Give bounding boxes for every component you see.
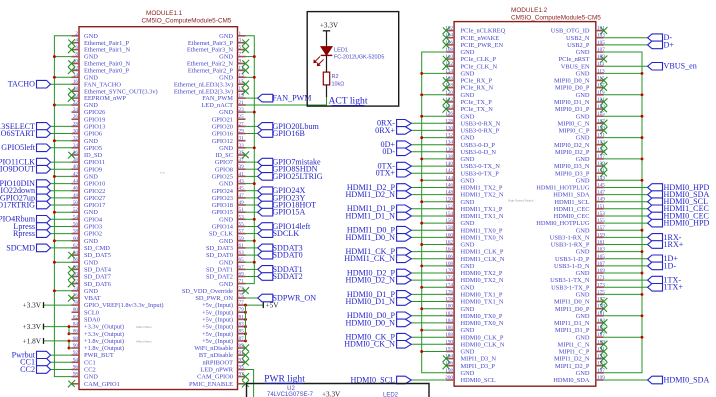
pin 76 VBAT (MODULE1.1 left)	[68, 293, 101, 302]
svg-text:107: 107	[597, 47, 605, 53]
svg-text:MIPI1_D3_N: MIPI1_D3_N	[461, 356, 497, 363]
svg-text:84: 84	[73, 322, 79, 328]
svg-text:MIPI0_D2_P: MIPI0_D2_P	[555, 149, 590, 156]
svg-text:0RX+: 0RX+	[375, 126, 395, 135]
svg-text:+3.3V: +3.3V	[322, 390, 341, 397]
pin 138 GND (MODULE1.2 left)	[420, 154, 474, 163]
pin 13 GND (MODULE1.1 right)	[219, 72, 256, 81]
svg-text:MIPI0_D0_N: MIPI0_D0_N	[554, 78, 590, 85]
pin 105 USB2_P (MODULE1.2 right)	[567, 40, 674, 49]
pin 30 GPIO6 (MODULE1.1 left)	[0, 129, 102, 138]
svg-text:GPIO9: GPIO9	[84, 166, 102, 173]
svg-text:34: 34	[73, 143, 79, 149]
svg-text:HDMI0_TX2_N: HDMI0_TX2_N	[461, 277, 504, 284]
pin 86 +3.3v_(Output) (MODULE1.1 left)	[72, 329, 125, 338]
svg-text:71: 71	[239, 279, 245, 285]
svg-text:39: 39	[239, 164, 245, 170]
svg-text:GND: GND	[461, 177, 475, 184]
pin 118 PCIe_RX_N (MODULE1.2 left)	[443, 83, 494, 92]
pin 35 ID_SC (MODULE1.1 right)	[215, 150, 249, 159]
svg-text:GND: GND	[576, 113, 590, 120]
svg-text:HDMI1_CEC: HDMI1_CEC	[554, 206, 590, 213]
svg-text:MIPI1_D3_P: MIPI1_D3_P	[461, 363, 496, 370]
svg-text:WiFi_nDisable: WiFi_nDisable	[194, 345, 233, 352]
svg-text:SD_DAT0: SD_DAT0	[206, 252, 233, 259]
svg-text:HDMI0_CLK_P: HDMI0_CLK_P	[461, 334, 504, 341]
svg-text:GND: GND	[576, 92, 590, 99]
svg-text:61: 61	[239, 243, 245, 249]
svg-text:GPIO24: GPIO24	[212, 188, 234, 195]
pin 40 GPIO9 (MODULE1.1 left)	[0, 164, 102, 174]
svg-text:SD_DAT6: SD_DAT6	[84, 281, 111, 288]
svg-text:GND: GND	[84, 174, 98, 181]
svg-text:GPIO17: GPIO17	[84, 202, 106, 209]
svg-text:USB3-0-RX_N: USB3-0-RX_N	[461, 120, 501, 127]
pin 168 GND (MODULE1.2 left)	[420, 261, 474, 270]
pin 188 HDMI0_CLK_P (MODULE1.2 left)	[346, 332, 504, 341]
svg-text:MIPI0_D1_P: MIPI0_D1_P	[555, 106, 590, 113]
svg-text:HDMI0_CLK_N: HDMI0_CLK_N	[461, 341, 505, 348]
svg-text:156: 156	[445, 218, 453, 224]
svg-text:0D-: 0D-	[382, 147, 395, 156]
svg-text:Ethernet_Pair3_N: Ethernet_Pair3_N	[187, 47, 234, 54]
svg-text:+5v_(Input): +5v_(Input)	[202, 309, 233, 316]
wire +1.8v output pair link	[68, 339, 72, 349]
pin 81 +5v_(Input) (MODULE1.1 right)	[202, 314, 247, 323]
pin 190 HDMI0_CLK_N (MODULE1.2 left)	[344, 339, 505, 348]
pin 139 MIPI0_D3_N (MODULE1.2 right)	[554, 161, 607, 170]
svg-text:USB3-1-RX_N: USB3-1-RX_N	[550, 235, 590, 242]
pin 29 GPIO16 (MODULE1.1 right)	[212, 129, 305, 138]
pin 187 GND (MODULE1.2 right)	[576, 332, 644, 341]
svg-text:MIPI0_D1_N: MIPI0_D1_N	[554, 99, 590, 106]
svg-text:HDMI1_SCL: HDMI1_SCL	[554, 199, 589, 206]
pin 54 GPIO4 (MODULE1.1 left)	[0, 214, 103, 223]
svg-text:13: 13	[239, 72, 245, 78]
svg-text:SDCMD: SDCMD	[6, 243, 35, 252]
pin 66 GND (MODULE1.1 left)	[53, 257, 98, 266]
svg-text:142: 142	[445, 168, 453, 174]
svg-text:GPIO13: GPIO13	[84, 124, 105, 131]
svg-text:108: 108	[445, 47, 453, 53]
svg-text:+5V: +5V	[266, 301, 280, 310]
svg-text:1: 1	[239, 31, 242, 37]
svg-text:USB3-1-TX_P: USB3-1-TX_P	[551, 284, 590, 291]
svg-text:96: 96	[73, 365, 79, 371]
pin 199 HDMI0_SDA (MODULE1.2 right)	[553, 375, 709, 384]
svg-text:92: 92	[73, 350, 79, 356]
pin 55 GPIO14 (MODULE1.1 right)	[212, 222, 311, 231]
svg-text:SD_CMD: SD_CMD	[84, 245, 110, 252]
pin 94 CC1 (MODULE1.1 left)	[20, 357, 96, 366]
svg-text:130: 130	[445, 125, 453, 131]
svg-text:GND: GND	[576, 227, 590, 234]
svg-text:GND: GND	[84, 288, 98, 295]
svg-text:MIPI0_D3_N: MIPI0_D3_N	[554, 163, 590, 170]
pin 134 USB3-0-D_P (MODULE1.2 left)	[381, 140, 496, 149]
svg-text:GPIO17RTRIG: GPIO17RTRIG	[0, 200, 35, 209]
svg-text:43: 43	[239, 179, 245, 185]
pin 88 +1.8v_(Output) (MODULE1.1 left)	[22, 336, 124, 346]
pin 111 VBUS_EN (MODULE1.2 right)	[561, 61, 697, 71]
svg-text:GND: GND	[461, 306, 475, 313]
svg-text:GND: GND	[461, 327, 475, 334]
pin 176 HDMI0_TX1_P (MODULE1.2 left)	[347, 289, 503, 298]
svg-text:197: 197	[597, 368, 605, 374]
svg-text:180: 180	[445, 304, 453, 310]
svg-text:MIPI1_D1_N: MIPI1_D1_N	[554, 320, 590, 327]
svg-text:162: 162	[445, 240, 453, 246]
pin 195 MIPI1_D2_P (MODULE1.2 right)	[555, 361, 607, 370]
svg-text:LED_nACT: LED_nACT	[201, 102, 233, 109]
svg-text:88: 88	[73, 336, 79, 342]
svg-text:GPIO16B: GPIO16B	[273, 129, 305, 138]
pin 197 GND (MODULE1.2 right)	[576, 368, 606, 377]
svg-text:GND: GND	[461, 284, 475, 291]
svg-text:GPIO8: GPIO8	[215, 166, 233, 173]
svg-text:166: 166	[445, 254, 453, 260]
pin 196 MIPI1_D3_P (MODULE1.2 left)	[443, 361, 496, 370]
svg-text:GPIO20: GPIO20	[212, 124, 233, 131]
svg-text:2: 2	[75, 31, 78, 37]
svg-text:GND: GND	[461, 156, 475, 163]
wire LED cathode to R2	[326, 55, 328, 72]
pin 189 MIPI1_C_N (MODULE1.2 right)	[558, 339, 608, 348]
svg-text:GND: GND	[219, 181, 233, 188]
svg-text:+5v_(Input): +5v_(Input)	[202, 317, 233, 324]
pin 4 Ethernet_Pair1_P (MODULE1.1 left)	[68, 38, 130, 47]
pin 143 GND (MODULE1.2 right)	[576, 175, 644, 184]
pin 120 GND (MODULE1.2 left)	[420, 90, 474, 99]
pin 64 SD_DAT5 (MODULE1.1 left)	[68, 250, 111, 259]
svg-text:69: 69	[239, 272, 245, 278]
pin 126 GND (MODULE1.2 left)	[420, 111, 474, 120]
connector MODULE1.2 CM5IO_ComputeModule5-CM5 body	[454, 7, 601, 386]
svg-text:25: 25	[239, 114, 245, 120]
svg-text:56: 56	[73, 222, 79, 228]
pin 98 GND (MODULE1.1 left)	[72, 372, 99, 381]
pin 14 GND (MODULE1.1 left)	[53, 72, 98, 81]
svg-text:SD_DAT2: SD_DAT2	[206, 274, 233, 281]
pin 85 +5v_(Input) (MODULE1.1 right)	[202, 329, 247, 338]
svg-text:ID_SD: ID_SD	[84, 152, 102, 159]
svg-text:GND: GND	[461, 71, 475, 78]
pin 152 HDMI1_TX1_P (MODULE1.2 left)	[347, 204, 503, 213]
svg-text:MIPI1_C_N: MIPI1_C_N	[558, 341, 590, 348]
svg-text:HDMI1_TX2_N: HDMI1_TX2_N	[461, 192, 504, 199]
pin 107 GND (MODULE1.2 right)	[576, 47, 606, 56]
svg-text:SD_DAT7: SD_DAT7	[84, 274, 112, 281]
svg-text:GPIO7: GPIO7	[215, 159, 234, 166]
pin 53 GND (MODULE1.1 right)	[219, 214, 256, 223]
svg-text:32: 32	[73, 136, 79, 142]
svg-text:GPIO12: GPIO12	[212, 138, 233, 145]
svg-text:GPIO25: GPIO25	[212, 174, 233, 181]
pin 194 MIPI1_D3_N (MODULE1.2 left)	[443, 354, 497, 363]
svg-text:132: 132	[445, 133, 453, 139]
svg-text:168: 168	[445, 261, 453, 267]
pin 83 +5v_(Input) (MODULE1.1 right)	[202, 322, 247, 331]
svg-text:USB3-0-D_N: USB3-0-D_N	[461, 149, 497, 156]
svg-text:+5v_(Input): +5v_(Input)	[202, 331, 233, 338]
wire +5v input bus	[245, 305, 247, 341]
svg-text:HDMI1_TX0_N: HDMI1_TX0_N	[461, 235, 504, 242]
svg-text:85: 85	[239, 329, 245, 335]
svg-text:128: 128	[445, 118, 453, 124]
pin 137 GND (MODULE1.2 right)	[576, 154, 644, 163]
svg-text:MIPI1_C_P: MIPI1_C_P	[559, 349, 590, 356]
svg-text:62: 62	[73, 243, 79, 249]
pin 1 GND (MODULE1.1 right)	[219, 31, 245, 40]
wire GND bus right of MODULE1.2	[604, 52, 642, 373]
svg-text:114: 114	[445, 68, 453, 74]
svg-text:GND: GND	[576, 49, 590, 56]
svg-text:152: 152	[445, 204, 453, 210]
pin 91 BT_nDisable (MODULE1.1 right)	[199, 350, 249, 359]
pin 61 SD_DAT3 (MODULE1.1 right)	[206, 243, 303, 252]
svg-text:87: 87	[239, 336, 245, 342]
svg-text:HDMI1_TX1_P: HDMI1_TX1_P	[461, 206, 503, 213]
pin 192 GND (MODULE1.2 left)	[420, 347, 474, 356]
svg-text:119: 119	[597, 90, 605, 96]
svg-text:HDMI0_CK_N: HDMI0_CK_N	[344, 340, 395, 349]
svg-text:GPIO14: GPIO14	[212, 224, 234, 231]
svg-text:MIPI1_D0_P: MIPI1_D0_P	[555, 306, 590, 313]
svg-text:HDMI0_D2_N: HDMI0_D2_N	[346, 276, 396, 285]
svg-text:44: 44	[73, 179, 79, 185]
pin 34 GPIO5 (MODULE1.1 left)	[1, 143, 102, 152]
svg-text:+3.3V: +3.3V	[22, 322, 41, 331]
connector MODULE1.1 CM5IO_ComputeModule5-CM5 body	[79, 10, 238, 389]
pin 181 GND (MODULE1.2 right)	[576, 311, 644, 320]
pin 33 GND (MODULE1.1 right)	[219, 143, 256, 152]
svg-text:MIPI1_D1_P: MIPI1_D1_P	[555, 327, 590, 334]
pin 167 USB3-1-D_N (MODULE1.2 right)	[554, 261, 676, 270]
pin 22 GND (MODULE1.1 left)	[53, 100, 98, 109]
svg-text:USB_OTG_ID: USB_OTG_ID	[551, 28, 590, 35]
svg-text:ACT light: ACT light	[328, 96, 367, 107]
pin 90 +1.8v_(Output) (MODULE1.1 left)	[72, 343, 125, 352]
svg-text:CC1: CC1	[84, 359, 96, 366]
pin 182 HDMI0_TX0_P (MODULE1.2 left)	[347, 311, 503, 320]
svg-text:HDMI1_D0_N: HDMI1_D0_N	[346, 233, 396, 242]
svg-text:nRPIBOOT: nRPIBOOT	[202, 359, 233, 366]
pin 20 EEPROM_nWP (MODULE1.1 left)	[68, 93, 126, 102]
svg-text:HDMI0_TX1_N: HDMI0_TX1_N	[461, 299, 504, 306]
pin 56 GPIO3 (MODULE1.1 left)	[13, 222, 102, 231]
pin 59 GND (MODULE1.1 right)	[219, 236, 256, 245]
svg-text:+5v_(Input): +5v_(Input)	[202, 338, 233, 345]
pin 2 GND (MODULE1.1 left)	[72, 31, 99, 40]
svg-text:27: 27	[239, 121, 245, 127]
svg-text:98: 98	[73, 372, 79, 378]
pin 185 MIPI1_D1_P (MODULE1.2 right)	[555, 325, 607, 334]
svg-text:HDMI1_CK_N: HDMI1_CK_N	[344, 254, 395, 263]
pin 19 FAN_PWM (MODULE1.1 right)	[202, 93, 311, 102]
pin 142 USB3-0-TX_P (MODULE1.2 left)	[376, 168, 500, 177]
svg-text:Affect filters: Affect filters	[136, 325, 152, 329]
pin 74 GND (MODULE1.1 left)	[53, 286, 98, 295]
svg-text:33: 33	[239, 143, 245, 149]
svg-text:HDMI1_CLK_N: HDMI1_CLK_N	[461, 256, 505, 263]
svg-text:GPIO5left: GPIO5left	[1, 143, 35, 152]
pin 62 SD_CMD (MODULE1.1 left)	[6, 243, 110, 252]
svg-text:TACHO: TACHO	[8, 80, 35, 89]
pin 73 SD_VDD_Override (MODULE1.1 right)	[182, 286, 249, 295]
pin 101 USB_OTG_ID (MODULE1.2 right)	[551, 26, 608, 35]
pin 17 Ethernet_nLED2(3.3v) (MODULE1.1 right)	[174, 86, 249, 95]
svg-text:GPIO9DOUT: GPIO9DOUT	[0, 165, 35, 174]
svg-text:86: 86	[73, 329, 79, 335]
pin 165 USB3-1-D_P (MODULE1.2 right)	[555, 254, 678, 263]
svg-text:MIPI0_D0_P: MIPI0_D0_P	[555, 85, 590, 92]
svg-text:1D-: 1D-	[664, 261, 677, 270]
pin 113 GND (MODULE1.2 right)	[576, 68, 644, 77]
svg-text:SD_PWR_ON: SD_PWR_ON	[195, 295, 233, 302]
svg-text:HDMI0_HPD: HDMI0_HPD	[664, 219, 710, 228]
svg-text:PCIe_nRST: PCIe_nRST	[559, 56, 590, 63]
pin 180 GND (MODULE1.2 left)	[420, 304, 474, 313]
svg-text:+3.3V: +3.3V	[22, 301, 41, 310]
pin 78 GPIO_VREF(1.8v/3.3v_Input) (MODULE1.1 left)	[22, 300, 163, 310]
svg-text:51: 51	[239, 207, 245, 213]
svg-text:HDMI1_HOTPLUG: HDMI1_HOTPLUG	[536, 185, 590, 192]
svg-text:CAM_GPIO0: CAM_GPIO0	[197, 374, 233, 381]
pin 42 GND (MODULE1.1 left)	[53, 171, 98, 180]
pin 116 PCIe_RX_P (MODULE1.2 left)	[443, 76, 493, 85]
svg-text:ID_SC: ID_SC	[215, 152, 233, 159]
pin 32 GND (MODULE1.1 left)	[53, 136, 98, 145]
svg-text:MIPI0_D3_P: MIPI0_D3_P	[555, 170, 590, 177]
pin 163 GND (MODULE1.2 right)	[576, 247, 644, 256]
resistor R2 10k	[323, 72, 344, 87]
svg-text:21: 21	[239, 100, 245, 106]
svg-text:67: 67	[239, 264, 245, 270]
pin 45 GPIO24 (MODULE1.1 right)	[212, 186, 306, 195]
svg-text:GPIO22: GPIO22	[84, 188, 105, 195]
pin 146 HDMI1_TX2_P (MODULE1.2 left)	[347, 183, 503, 192]
svg-text:HDMI0_TX2_P: HDMI0_TX2_P	[461, 270, 503, 277]
pin 51 GPIO15 (MODULE1.1 right)	[212, 207, 306, 216]
svg-text:GND: GND	[461, 263, 475, 270]
svg-text:19: 19	[239, 93, 245, 99]
pin 123 MIPI0_D1_P (MODULE1.2 right)	[555, 104, 607, 113]
svg-text:GND: GND	[576, 156, 590, 163]
pin 169 GND (MODULE1.2 right)	[576, 268, 644, 277]
svg-text:14: 14	[73, 72, 79, 78]
svg-text:50: 50	[73, 200, 79, 206]
node PWR light block frame	[247, 384, 430, 397]
pin 68 SD_DAT4 (MODULE1.1 left)	[68, 264, 112, 273]
pin 200 HDMI0_SCL (MODULE1.2 left)	[350, 375, 495, 384]
svg-text:38: 38	[73, 157, 79, 163]
pin 96 CC2 (MODULE1.1 left)	[20, 365, 96, 374]
svg-text:GND: GND	[219, 238, 233, 245]
pin 106 PCIE_PWR_EN (MODULE1.2 left)	[443, 40, 504, 49]
pin 130 USB3-0-RX_P (MODULE1.2 left)	[375, 125, 500, 134]
svg-text:49: 49	[239, 200, 245, 206]
svg-text:SD_VDD_Override: SD_VDD_Override	[182, 288, 233, 295]
svg-text:+3.3v_(Output): +3.3v_(Output)	[84, 324, 124, 331]
pin 104 PCIE_nWAKE (MODULE1.2 left)	[443, 33, 500, 42]
pin 70 SD_DAT7 (MODULE1.1 left)	[68, 272, 112, 281]
svg-text:54: 54	[73, 214, 79, 220]
svg-text:VBUS_EN: VBUS_EN	[561, 63, 590, 70]
wire GND bus left of MODULE1.1	[54, 36, 71, 377]
pin 48 GPIO27 (MODULE1.1 left)	[0, 193, 106, 202]
pin 186 GND (MODULE1.2 left)	[420, 325, 474, 334]
pin 10 Ethernet_Pair0_N (MODULE1.1 left)	[68, 59, 131, 68]
svg-text:GND: GND	[84, 238, 98, 245]
svg-text:48: 48	[73, 193, 79, 199]
pin 193 MIPI1_D2_N (MODULE1.2 right)	[554, 354, 607, 363]
pin 103 USB2_N (MODULE1.2 right)	[566, 33, 672, 42]
svg-text:SD_DAT5: SD_DAT5	[84, 252, 111, 259]
pin 82 SDA0 (MODULE1.1 left)	[72, 314, 100, 323]
svg-text:120: 120	[445, 90, 453, 96]
pin 150 GND (MODULE1.2 left)	[420, 197, 474, 206]
pin 46 GPIO22 (MODULE1.1 left)	[0, 186, 105, 195]
pin 183 MIPI1_D1_N (MODULE1.2 right)	[554, 318, 607, 327]
pin 112 PCIe_CLK_N (MODULE1.2 left)	[443, 61, 498, 70]
pin 65 GND (MODULE1.1 right)	[219, 257, 256, 266]
svg-text:16: 16	[73, 79, 79, 85]
svg-text:190: 190	[445, 339, 453, 345]
svg-text:77: 77	[239, 300, 245, 306]
svg-text:+5v_(Input): +5v_(Input)	[202, 324, 233, 331]
node PWR light net name	[264, 373, 305, 384]
svg-text:HDMI0_SDA: HDMI0_SDA	[553, 377, 590, 384]
svg-text:GPIO5: GPIO5	[84, 145, 102, 152]
svg-text:Ethernet_nLED3(3.3v): Ethernet_nLED3(3.3v)	[174, 81, 233, 88]
svg-text:63: 63	[239, 250, 245, 256]
pin 80 SCL0 (MODULE1.1 left)	[72, 307, 99, 316]
svg-text:53: 53	[239, 214, 245, 220]
svg-text:BT_nDisable: BT_nDisable	[199, 352, 233, 359]
svg-text:HDMI1_TX1_N: HDMI1_TX1_N	[461, 213, 504, 220]
svg-text:HDMI0_D1_N: HDMI0_D1_N	[346, 297, 396, 306]
pin 122 PCIe_TX_P (MODULE1.2 left)	[443, 97, 493, 106]
svg-text:HDMI0_CEC: HDMI0_CEC	[554, 213, 590, 220]
pin 159 USB3-1-RX_N (MODULE1.2 right)	[550, 232, 682, 241]
svg-text:154: 154	[445, 211, 453, 217]
svg-text:+1.8V: +1.8V	[22, 336, 41, 345]
pin 175 GND (MODULE1.2 right)	[576, 289, 644, 298]
svg-text:47: 47	[239, 193, 245, 199]
svg-text:75: 75	[239, 293, 245, 299]
svg-text:138: 138	[445, 154, 453, 160]
svg-text:VBAT: VBAT	[84, 295, 101, 302]
pin 95 LED_nPWR (MODULE1.1 right)	[200, 365, 253, 397]
svg-text:HDMI0_D0_N: HDMI0_D0_N	[346, 318, 396, 327]
svg-text:CM5IO_ComputeModule5-CM5: CM5IO_ComputeModule5-CM5	[511, 14, 601, 21]
pin 15 Ethernet_nLED3(3.3v) (MODULE1.1 right)	[174, 79, 249, 88]
svg-text:USB3-0-RX_P: USB3-0-RX_P	[461, 128, 500, 135]
svg-text:Affect filters: Affect filters	[136, 340, 152, 344]
svg-text:41: 41	[239, 171, 245, 177]
svg-text:126: 126	[445, 111, 453, 117]
pin 36 ID_SD (MODULE1.1 left)	[68, 150, 103, 159]
pin 128 USB3-0-RX_N (MODULE1.2 left)	[377, 118, 501, 127]
svg-text:GND: GND	[219, 259, 233, 266]
pin 132 GND (MODULE1.2 left)	[420, 133, 474, 142]
svg-text:186: 186	[445, 325, 453, 331]
pin 58 GPIO2 (MODULE1.1 left)	[13, 229, 102, 238]
node ACT light block frame	[307, 12, 399, 107]
svg-text:SD_DAT3: SD_DAT3	[206, 245, 233, 252]
pin 97 CAM_GPIO0 (MODULE1.1 right)	[197, 372, 249, 381]
svg-text:SD_DAT1: SD_DAT1	[206, 267, 233, 274]
